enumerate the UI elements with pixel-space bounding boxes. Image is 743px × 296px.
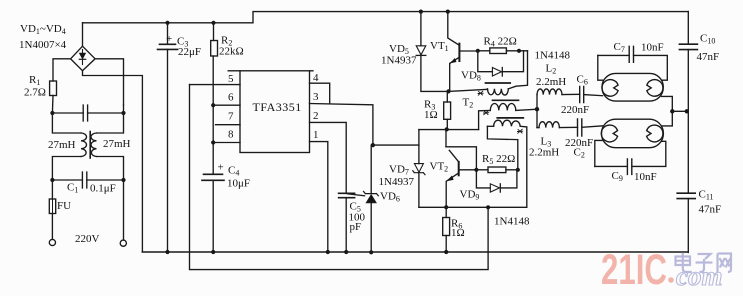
capacitor C7 plates bbox=[629, 46, 633, 62]
wire lamp1 lower-right pin to mid junction bbox=[662, 96, 673, 111]
svg-text:2.2mH: 2.2mH bbox=[536, 76, 566, 88]
wire lamp1 upper-left pin to C7 loop bbox=[598, 55, 603, 80]
node dot cap right bbox=[121, 111, 125, 115]
lamp2 right filament bbox=[647, 125, 663, 142]
capacitor X2 across (y=113) bbox=[52, 112, 123, 114]
svg-text:27mH: 27mH bbox=[48, 139, 76, 151]
zener VD7 1N4937 bbox=[418, 130, 420, 164]
svg-text:2: 2 bbox=[313, 110, 319, 122]
zener VD6 bbox=[370, 145, 372, 193]
node dot pin6 junction bbox=[211, 103, 215, 107]
wire R4 right down to T2 top winding bbox=[508, 51, 527, 89]
inductor L3 coil bbox=[539, 122, 559, 128]
node dot C5 bus bbox=[344, 250, 348, 254]
pin 1 stub bbox=[310, 142, 328, 252]
pin 8 stub bbox=[213, 142, 240, 144]
node dot mid junction left bbox=[670, 109, 674, 113]
wire R1 to cap node bbox=[51, 96, 54, 114]
watermark chinese 网 bbox=[718, 254, 732, 273]
transistor Q2 VT2 emitter bbox=[446, 173, 459, 218]
node A dot (x=372.9,y=145) bbox=[371, 143, 375, 147]
svg-text:5: 5 bbox=[228, 73, 234, 85]
svg-text:1: 1 bbox=[313, 129, 319, 141]
wire bottom bus bbox=[142, 251, 688, 253]
resistor R3 bbox=[446, 91, 448, 102]
wire L2L3 vertical bbox=[536, 95, 538, 128]
node dot VT2 emitter on y207 line bbox=[444, 205, 448, 209]
capacitor C9 loop bottom bbox=[595, 141, 666, 166]
inductor L2 coil bbox=[537, 89, 562, 95]
lamp tube 1 bbox=[602, 73, 663, 101]
node dot pin8 junction bbox=[211, 140, 215, 144]
wire L3 to C2 bbox=[537, 126, 578, 128]
lamp1 left filament bbox=[602, 80, 618, 97]
wire R2 down to pin6/pin8/C4 bbox=[212, 56, 214, 174]
transistor Q2 VT2 base bar bbox=[458, 162, 460, 175]
arrowhead VT2 emitter bbox=[446, 176, 453, 182]
svg-text:47nF: 47nF bbox=[699, 204, 722, 216]
svg-text:10nF: 10nF bbox=[634, 171, 657, 183]
svg-text:3: 3 bbox=[313, 91, 319, 103]
node dot C1 right bbox=[121, 178, 125, 182]
wire lamp2 upper-right pin to mid junction bbox=[662, 111, 673, 126]
svg-text:VD1~VD4: VD1~VD4 bbox=[20, 23, 66, 36]
transformer T2 top winding coil bbox=[488, 89, 509, 95]
svg-text:+: + bbox=[218, 162, 224, 174]
terminal 220V left bbox=[49, 239, 55, 245]
node dot rail VD5 bbox=[419, 10, 423, 14]
op-amp U1 TFA3351 IC body bbox=[240, 71, 310, 153]
svg-text:TFA3351: TFA3351 bbox=[253, 100, 302, 114]
wire bridge bottom to negative rail x=142 bbox=[83, 71, 143, 252]
node dot C3 bus bbox=[165, 250, 169, 254]
resistor R6 bbox=[443, 218, 450, 236]
wire R5 right up to bottom winding left bbox=[487, 126, 517, 170]
node dot L2L3 feed bbox=[535, 107, 539, 111]
wire middle winding right to L2L3 node bbox=[516, 109, 537, 110]
capacitor C6 bbox=[580, 87, 584, 103]
node dot rail C3 bbox=[165, 21, 169, 25]
svg-text:4: 4 bbox=[313, 72, 319, 84]
svg-text:8: 8 bbox=[228, 129, 234, 141]
wire top rail left y=22.8 bbox=[83, 12, 689, 23]
phase dot middle winding bbox=[484, 111, 489, 115]
svg-text:1Ω: 1Ω bbox=[451, 227, 465, 239]
svg-text:220nF: 220nF bbox=[565, 137, 593, 149]
inductor 27mH right coil bbox=[91, 133, 96, 157]
wire middle winding left down to midpoint line bbox=[479, 110, 491, 129]
svg-text:47nF: 47nF bbox=[697, 51, 720, 63]
transistor Q1 VT1 emitter bbox=[450, 57, 460, 91]
svg-text:1N4007×4: 1N4007×4 bbox=[19, 39, 67, 51]
wire left bus x=190.6 bbox=[190, 85, 489, 270]
wire midpoint line y=129.4 bbox=[419, 129, 479, 131]
bridge rectifier VD1-VD4 diamond bbox=[71, 46, 96, 70]
wire L2 to C6 bbox=[562, 93, 580, 95]
phase dot bottom winding bbox=[518, 129, 523, 133]
choke core bbox=[89, 132, 91, 159]
lamp2 left filament bbox=[601, 125, 617, 142]
resistor R1 bbox=[50, 81, 57, 96]
transistor Q2 VT2 collector diagonal bbox=[449, 150, 458, 162]
node dot mid junction border bbox=[685, 109, 689, 113]
svg-text:10μF: 10μF bbox=[227, 178, 250, 190]
node dot VD6 bus bbox=[369, 250, 373, 254]
fuse FU bbox=[49, 199, 55, 214]
node dot C4 bus bbox=[211, 250, 215, 254]
wire right branch to choke bbox=[97, 105, 124, 133]
transformer T2 middle winding coil bbox=[490, 104, 516, 111]
diode VD5 1N4937 bbox=[420, 12, 422, 46]
transistor Q1 VT1 base wire to R4 bbox=[459, 50, 477, 52]
wire VT2 collector drop bbox=[445, 129, 447, 146]
inductor 27mH left coil bbox=[81, 133, 87, 157]
wire y=207.3 line bbox=[419, 206, 527, 208]
wire C2 to lamp2 upper-left pin bbox=[582, 126, 603, 127]
transformer T2 top winding core bbox=[486, 82, 511, 84]
svg-text:1N4148: 1N4148 bbox=[494, 216, 530, 228]
wire C6 to lamp1 lower-left pin bbox=[584, 95, 603, 96]
wire left branch down to choke bbox=[52, 113, 81, 133]
node dot R4 right bbox=[517, 49, 521, 53]
svg-text:6: 6 bbox=[228, 92, 234, 104]
lamp1 right filament bbox=[647, 80, 663, 97]
wire bottom winding right down to y207 bbox=[520, 126, 527, 207]
pin 2 stub bbox=[310, 122, 347, 193]
diode VD9 loop bbox=[476, 170, 517, 188]
pin 6 stub bbox=[213, 104, 240, 106]
capacitor C9 plates bbox=[627, 159, 631, 175]
wire fuse to terminal bbox=[51, 214, 53, 240]
svg-text:21IC: 21IC bbox=[601, 246, 667, 294]
capacitor C11 bbox=[677, 193, 695, 198]
watermark chinese 子 bbox=[696, 254, 713, 272]
lamp tube 2 bbox=[602, 119, 664, 148]
node dot y207 x488 bbox=[486, 205, 490, 209]
node dot cap left bbox=[50, 111, 54, 115]
node dot R6 bus bbox=[444, 250, 448, 254]
transistor Q2 VT2 base wire bbox=[459, 169, 477, 171]
node dot rail VT1 collector bbox=[446, 10, 450, 14]
node dot C1 left bbox=[50, 178, 54, 182]
svg-text:pF: pF bbox=[350, 221, 362, 233]
node dot VT2 base R5 left bbox=[474, 168, 478, 172]
transformer T2 bottom winding coil bbox=[494, 120, 521, 126]
wire node A to VD7 branch bbox=[373, 144, 419, 146]
svg-text:10nF: 10nF bbox=[641, 42, 664, 54]
wire right branch to terminal bbox=[123, 180, 125, 240]
svg-text:FU: FU bbox=[57, 200, 71, 212]
pin 4 stub bbox=[310, 70, 314, 72]
svg-text:1N4937: 1N4937 bbox=[381, 55, 417, 67]
svg-text:22μF: 22μF bbox=[178, 46, 201, 58]
svg-text:27mH: 27mH bbox=[103, 138, 131, 150]
watermark chinese 电 bbox=[676, 253, 692, 272]
terminal 220V right bbox=[120, 240, 126, 246]
watermark dot bbox=[668, 277, 674, 283]
svg-text:22kΩ: 22kΩ bbox=[219, 46, 244, 58]
transistor Q1 VT1 collector wire bbox=[448, 12, 460, 46]
bridge inner diode bbox=[82, 50, 84, 54]
phase dot top winding bbox=[478, 91, 483, 95]
svg-text:7: 7 bbox=[228, 111, 234, 123]
transformer T2 bottom winding core bbox=[497, 117, 523, 119]
capacitor C4 electrolytic bbox=[204, 173, 223, 175]
node dot R4 left bbox=[476, 49, 480, 53]
capacitor C5 bbox=[339, 192, 355, 194]
svg-text:R4 22Ω: R4 22Ω bbox=[484, 36, 517, 49]
svg-text:220nF: 220nF bbox=[561, 104, 589, 116]
capacitor C3 electrolytic bbox=[167, 23, 169, 45]
node dot rail R2 bbox=[211, 21, 215, 25]
wire collector node to base loop bbox=[446, 147, 476, 170]
diode VD8 loop bbox=[478, 51, 524, 72]
svg-text:1Ω: 1Ω bbox=[424, 109, 438, 121]
wire right border with C10 C11 bbox=[687, 12, 689, 253]
resistor R5 bbox=[476, 169, 488, 171]
svg-text:1N4148: 1N4148 bbox=[535, 50, 571, 62]
resistor R2 bbox=[213, 23, 215, 41]
pin 5 stub bbox=[228, 70, 240, 72]
arrowhead VT1 emitter bbox=[450, 58, 457, 63]
node dot R3 bottom bbox=[445, 127, 449, 131]
svg-text:0.1μF: 0.1μF bbox=[90, 183, 116, 195]
transistor Q1 VT1 base bar bbox=[458, 44, 460, 61]
svg-text:2.2mH: 2.2mH bbox=[529, 147, 559, 159]
capacitor C10 bbox=[679, 44, 697, 49]
capacitor C7 loop top bbox=[598, 55, 668, 80]
wire lamp2 lower-left pin to C9 loop bbox=[595, 140, 602, 166]
wire choke left bottom bbox=[52, 157, 81, 181]
wire bridge top lead bbox=[82, 23, 84, 46]
svg-text:R5 22Ω: R5 22Ω bbox=[482, 153, 515, 166]
wire bottom winding left lead bbox=[487, 125, 493, 127]
node dot VT1 emitter junction bbox=[446, 89, 450, 93]
resistor R4 bbox=[478, 50, 490, 52]
pin 7 stub bbox=[216, 124, 241, 126]
wire mid junction to border bbox=[672, 110, 688, 112]
svg-text:+: + bbox=[166, 33, 172, 45]
wire bridge right vertex bbox=[95, 59, 123, 105]
svg-text:1N4937: 1N4937 bbox=[379, 176, 415, 188]
wire C1 left to fuse bbox=[51, 180, 53, 199]
node dot pin1 bus bbox=[326, 250, 330, 254]
svg-text:2.7Ω: 2.7Ω bbox=[24, 87, 46, 99]
capacitor C1 (y=180) bbox=[52, 179, 123, 181]
transformer T2 middle winding core bbox=[493, 99, 519, 101]
pin 3 stub wire to node A bbox=[310, 104, 373, 146]
node dot R5 right bbox=[516, 168, 520, 172]
svg-text:220V: 220V bbox=[75, 233, 100, 245]
capacitor C2 bbox=[578, 119, 582, 136]
wire bridge left vertex to R1 bbox=[53, 59, 71, 81]
wire C5 to VD6 stub bbox=[348, 194, 365, 196]
wire top winding left to emitter node bbox=[449, 89, 488, 91]
wire choke right bottom bbox=[97, 157, 124, 181]
